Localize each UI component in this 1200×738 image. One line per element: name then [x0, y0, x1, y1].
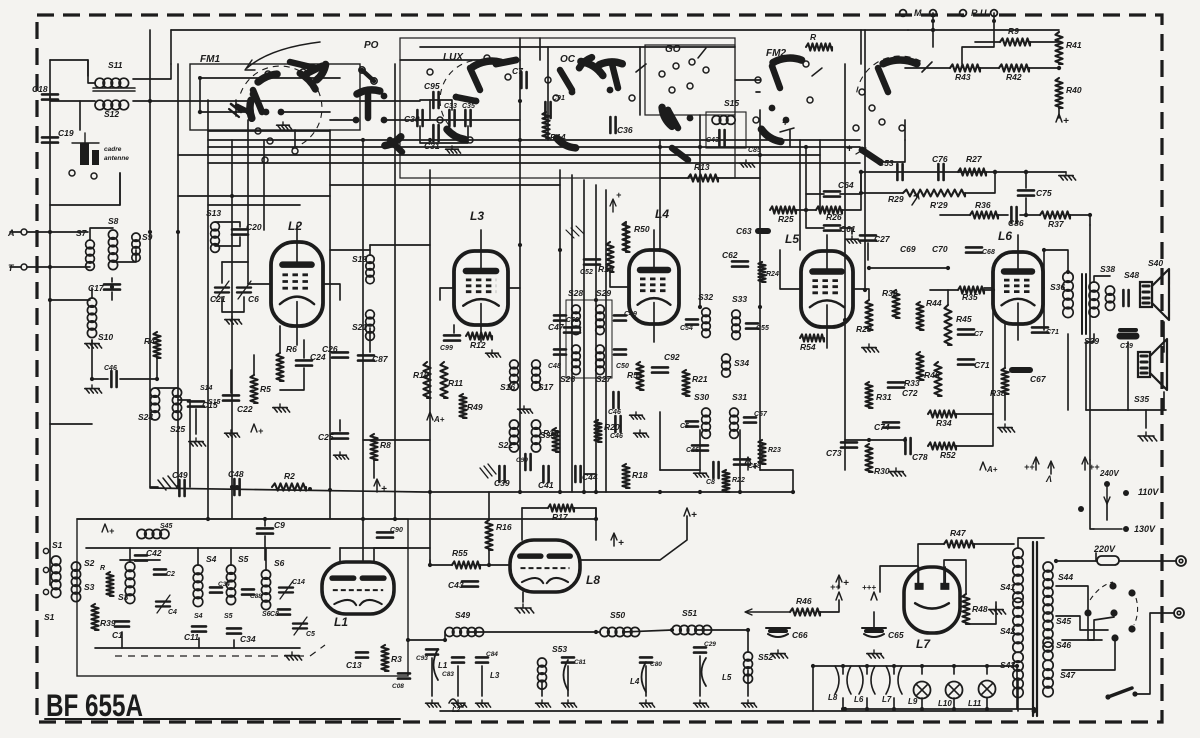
svg-text:R23: R23 — [768, 447, 781, 454]
wire trafo bot — [1017, 678, 1019, 711]
LUX black bar — [456, 97, 476, 101]
wire S12 left — [80, 101, 95, 130]
capacitor C77 — [958, 329, 974, 334]
wire chain wire1 — [408, 632, 445, 640]
ground gnd R38 — [998, 424, 1015, 432]
tap 110V — [1123, 490, 1129, 496]
resistor R8 — [370, 434, 377, 460]
tank bracket L1 — [434, 649, 439, 680]
wire switch wire — [1135, 613, 1174, 694]
contact dots FM2 — [769, 105, 790, 124]
wire rail x800 — [799, 140, 801, 250]
wire top bus drop R — [860, 30, 862, 64]
capacitor C61 — [824, 225, 840, 230]
wire mid h y140 — [208, 139, 860, 141]
resistor R30 — [865, 444, 872, 472]
svg-text:S3: S3 — [118, 592, 129, 602]
wire A lead — [10, 231, 21, 233]
resistor R14 — [542, 112, 549, 138]
wire box inner bottom3 — [233, 640, 235, 648]
capacitor C66a — [692, 445, 708, 450]
svg-text:C8: C8 — [706, 479, 715, 486]
switch rotor FM1 f — [300, 73, 315, 89]
title underline — [45, 718, 400, 720]
switch rotor OC e — [557, 138, 576, 148]
switch contacts OC — [545, 69, 635, 143]
wire C61 links — [806, 210, 824, 228]
tank bracket L4 — [642, 662, 647, 692]
plus band — [102, 524, 108, 532]
wire v misc3 — [1090, 460, 1094, 529]
wire sel wire1 — [1056, 586, 1088, 609]
resistor R13 — [688, 174, 718, 181]
svg-text:Λ: Λ — [1045, 474, 1052, 484]
OC tick — [636, 64, 646, 72]
svg-text:C67: C67 — [1030, 374, 1047, 384]
svg-text:S40: S40 — [1148, 258, 1163, 268]
resistor R32 — [892, 290, 899, 318]
svg-text:C50: C50 — [616, 363, 629, 370]
FM1 box — [190, 64, 360, 130]
wire v x700 low — [699, 430, 701, 470]
switch arc FM1 — [241, 66, 322, 149]
wire box inner bottom2 — [198, 638, 200, 648]
wire C64 links — [806, 194, 824, 210]
ground gnd L8 — [515, 604, 534, 613]
wire L5 top lead — [826, 235, 828, 251]
node M stub — [931, 19, 935, 23]
resistor R52 — [928, 442, 956, 449]
wire L8 gnd wire — [522, 592, 524, 602]
capacitor C88 — [242, 589, 254, 594]
wire v misc2 — [1043, 250, 1045, 330]
svg-text:cadre: cadre — [104, 146, 122, 153]
svg-text:R46: R46 — [796, 596, 812, 606]
svg-text:C80: C80 — [650, 661, 662, 668]
coil S47 — [1043, 660, 1053, 697]
wire h y560 l8 — [429, 560, 431, 565]
svg-text:C36: C36 — [617, 125, 633, 135]
svg-text:R35: R35 — [962, 292, 978, 302]
switch rotor FM2 a — [773, 58, 802, 63]
trimmer C21 — [215, 281, 229, 299]
terminal T — [21, 264, 27, 270]
A+ arrow d — [1084, 458, 1086, 470]
switch rotor GO b — [668, 110, 678, 128]
svg-text:S30: S30 — [694, 392, 709, 402]
svg-text:R: R — [100, 565, 105, 572]
svg-text:C2: C2 — [166, 571, 175, 578]
antenna sw contact2 — [91, 173, 97, 179]
wire left rail top — [50, 60, 88, 76]
svg-text:S35: S35 — [1134, 394, 1149, 404]
coil S16 — [510, 360, 519, 390]
node junction 51 — [1032, 707, 1036, 711]
capacitor C93 — [426, 649, 438, 654]
coil S15 — [712, 116, 735, 125]
node n R25 — [804, 208, 808, 212]
resistor R46 — [790, 608, 820, 615]
resistor R16 — [485, 520, 492, 550]
wire sel wire2 — [1056, 616, 1108, 630]
resistor R40 — [1055, 78, 1062, 108]
node junction 17 — [230, 485, 234, 489]
svg-text:C8: C8 — [270, 611, 279, 618]
switch rotor FM1 b — [250, 100, 252, 118]
svg-text:S43: S43 — [1000, 660, 1015, 670]
wire chain wire4 — [695, 630, 748, 652]
wire FM2 drop — [789, 130, 791, 147]
tube L3 — [454, 251, 508, 325]
wire top bus drop L — [170, 30, 172, 64]
capacitor C76 — [938, 164, 943, 180]
wire S19 wires — [369, 245, 371, 255]
wire v x845 mid — [844, 440, 846, 470]
wire chain drop1 — [431, 658, 433, 696]
wire extra l2 grid — [247, 262, 249, 284]
svg-text:C17: C17 — [88, 283, 105, 293]
node junction 6 — [758, 153, 762, 157]
resistor R51 — [636, 362, 643, 390]
svg-text:C53: C53 — [878, 158, 894, 168]
svg-text:+++: +++ — [862, 583, 876, 592]
wire strip h y120 — [420, 119, 520, 121]
svg-text:L8: L8 — [828, 693, 838, 702]
wire rail x178 — [177, 64, 179, 487]
wire L6 bottom lead — [1017, 324, 1019, 340]
svg-text:+: + — [846, 143, 853, 155]
node lamp node 954 — [952, 664, 956, 668]
wire L4 bottom lead — [653, 324, 655, 342]
capacitor C74 — [883, 422, 899, 427]
wire h misc1 — [845, 439, 905, 441]
svg-text:C66: C66 — [792, 630, 808, 640]
wire R55 wires — [430, 564, 452, 566]
svg-text:R39: R39 — [100, 618, 116, 628]
wire S11 left — [88, 60, 95, 83]
node junction 8 — [230, 194, 234, 198]
switch rotor FM1 c — [253, 90, 262, 112]
node lamp node2 894 — [892, 707, 896, 711]
node junction 23 — [594, 490, 598, 494]
node junction 22 — [582, 490, 586, 494]
wire R36 lead — [940, 214, 970, 216]
A+ mark2 — [427, 412, 433, 420]
capacitor C58 — [713, 462, 718, 478]
wire S13 bot — [215, 237, 240, 246]
wire chain drop5 — [567, 666, 569, 696]
wire S12 to C18 — [50, 97, 80, 101]
switch rotor OC d — [612, 64, 618, 88]
svg-text:L1: L1 — [438, 661, 448, 670]
switch rotor LUX b — [470, 68, 480, 90]
wire h y470 — [660, 469, 700, 471]
wire T wire — [27, 266, 50, 268]
svg-text:R4: R4 — [144, 336, 155, 346]
coil S37 secondary — [1089, 282, 1099, 317]
svg-text:GO: GO — [665, 44, 681, 55]
svg-text:R34: R34 — [936, 418, 952, 428]
tap 130V — [1094, 528, 1122, 530]
svg-text:C63: C63 — [736, 226, 752, 236]
node n take — [931, 28, 935, 32]
ground gnd chain 458 — [452, 700, 467, 707]
wire rail x760 — [759, 110, 761, 470]
wire left rail — [49, 60, 51, 585]
wire lamp drop 922b — [921, 698, 923, 709]
resistor R43 — [950, 64, 980, 71]
trimmer C5 — [293, 617, 307, 635]
svg-text:L6: L6 — [998, 229, 1012, 243]
wire main bus y490 — [150, 488, 793, 492]
ground gnd C74 — [889, 468, 906, 476]
contact dots OC — [569, 87, 614, 96]
wire chain drop7 — [699, 656, 701, 696]
wire R42 out — [1029, 67, 1059, 69]
wire lamp drop 843a — [842, 666, 844, 674]
svg-text:R15: R15 — [543, 428, 559, 438]
svg-text:R52: R52 — [940, 450, 956, 460]
capacitor C39 — [499, 466, 504, 482]
capacitor C35 — [465, 110, 470, 126]
resistor R12 — [466, 332, 492, 339]
coil S17 — [532, 360, 541, 390]
coil S3 — [125, 562, 135, 604]
contact dots LUX — [453, 94, 480, 105]
wire C15 drop — [195, 409, 197, 434]
wire trim drop — [222, 297, 244, 312]
wire L7 plate2 — [944, 560, 966, 594]
ground gnd chain 432 — [426, 700, 441, 707]
capacitor C33x — [449, 110, 454, 126]
wire mid v x248 — [247, 140, 249, 262]
svg-text:C34: C34 — [240, 634, 256, 644]
svg-text:M: M — [914, 8, 922, 18]
wire pot left — [861, 172, 903, 193]
wire R16 wires — [488, 492, 490, 520]
svg-text:C39: C39 — [494, 478, 510, 488]
svg-text:C7: C7 — [512, 66, 524, 76]
wire box inner v3 — [265, 548, 267, 570]
coil S50 — [600, 627, 640, 636]
capacitor C62 — [732, 261, 748, 266]
node junction 54 — [148, 99, 152, 103]
capacitor C95 — [433, 92, 438, 108]
svg-text:L11: L11 — [968, 699, 982, 708]
resistor R20 — [594, 420, 601, 442]
wire L2 top lead — [296, 225, 298, 242]
wire R43 lead — [905, 67, 950, 69]
wire FM1 wire a — [200, 111, 249, 113]
coil S53 — [538, 658, 547, 689]
svg-text:C68: C68 — [982, 249, 995, 256]
wire C27 drop — [867, 243, 869, 260]
capacitor C96a — [1123, 290, 1128, 306]
wire tube row h y250 — [330, 249, 370, 251]
mains terminal 1 — [1176, 556, 1186, 566]
resistor R10 — [423, 362, 430, 398]
svg-text:S19: S19 — [352, 254, 367, 264]
node junction 47 — [993, 170, 997, 174]
wire sel extra — [1106, 504, 1108, 520]
node junction 26 — [738, 490, 742, 494]
svg-text:R11: R11 — [448, 378, 463, 388]
capacitor C41 — [543, 466, 548, 482]
wire R38 gnd — [1004, 394, 1006, 420]
node junction 56 — [48, 230, 52, 234]
capacitor C63 blob — [755, 228, 771, 234]
wire SW7 wire — [880, 140, 905, 162]
coil S11 — [95, 78, 129, 88]
svg-text:+: + — [782, 118, 788, 129]
wire R16 w2 — [488, 550, 490, 565]
wire R37 out — [1070, 215, 1090, 225]
wire L3 bias — [453, 325, 455, 333]
wire lamp bus bottom — [845, 708, 1034, 710]
coil S29 — [596, 305, 605, 335]
tank bracket L3 — [564, 660, 569, 690]
wire L5 grid — [780, 250, 801, 289]
capacitor C59 — [734, 459, 750, 464]
svg-text:C76: C76 — [932, 154, 948, 164]
capacitor C46b — [615, 416, 620, 432]
terminal RU b — [991, 10, 998, 17]
wire M drop — [932, 13, 934, 30]
resistor R3 — [381, 645, 388, 671]
svg-text:R.U.: R.U. — [971, 8, 989, 18]
wire bundle v3 — [583, 180, 585, 492]
resistor R11 — [440, 362, 447, 398]
capacitor C49a — [614, 315, 626, 320]
speaker S35 — [1138, 339, 1167, 390]
node n C86 — [1024, 213, 1028, 217]
wire rail x660 — [659, 140, 661, 250]
capacitor C92 — [652, 367, 668, 372]
svg-text:C42: C42 — [146, 548, 162, 558]
choke L8b — [835, 666, 851, 694]
svg-text:R42: R42 — [1006, 72, 1022, 82]
wire strip h y60 — [400, 59, 520, 61]
ground gnd S30 — [694, 470, 709, 477]
svg-text:S5: S5 — [238, 554, 249, 564]
resistor R50 — [622, 222, 629, 252]
capacitor C56 — [686, 421, 698, 426]
node junction 14 — [698, 305, 702, 309]
wire sel drop — [1062, 641, 1115, 670]
node lamp node 867 — [865, 664, 869, 668]
coil S23 — [531, 420, 540, 452]
wire R45 link — [947, 290, 949, 305]
wire box inner v4 — [129, 548, 131, 562]
frame antenna symbol — [80, 143, 89, 165]
ground gnd chain 542 — [536, 700, 551, 707]
node junction 25 — [698, 490, 702, 494]
switch rotor GO c — [672, 148, 688, 160]
wire R17 loop — [522, 507, 548, 509]
wire C9 drop — [264, 536, 266, 560]
ground gnd S16 — [518, 406, 533, 413]
svg-text:R54: R54 — [800, 342, 816, 352]
svg-text:C27: C27 — [874, 234, 891, 244]
wire v misc4 — [1067, 334, 1069, 410]
svg-text:C64: C64 — [838, 180, 854, 190]
switch rotor PO d — [390, 140, 402, 152]
wire h y519 ext — [560, 508, 596, 519]
coil S1 ant — [51, 556, 61, 598]
svg-text:+: + — [618, 538, 624, 549]
ground gnd chain 748 — [742, 700, 757, 707]
wire L6 top lead — [1017, 235, 1019, 252]
ground gnd R12 — [486, 350, 501, 357]
svg-text:S51: S51 — [682, 608, 697, 618]
resistor R34 — [928, 410, 956, 417]
wire lamp bus right — [1016, 666, 1018, 709]
wire L1 leads2 — [373, 548, 375, 562]
svg-text:S15: S15 — [208, 399, 221, 406]
wire spk bus drop — [1163, 392, 1165, 410]
wire chain l1 — [150, 486, 158, 488]
plus arrow R8 — [376, 480, 378, 492]
A+ arrow f — [613, 534, 615, 546]
wire L6 plate — [1043, 287, 1044, 289]
svg-text:C65: C65 — [888, 630, 904, 640]
wire L5 bottom lead — [826, 327, 828, 348]
svg-text:C55: C55 — [756, 325, 769, 332]
wire L3 plate — [508, 287, 520, 289]
svg-text:C72: C72 — [902, 388, 918, 398]
wire S7 wires — [90, 228, 113, 240]
svg-text:R26: R26 — [826, 212, 842, 222]
switch contacts FM1 — [255, 69, 306, 163]
lamp L11 — [979, 681, 996, 698]
svg-text:C84: C84 — [486, 651, 498, 658]
svg-text:S48: S48 — [1124, 270, 1139, 280]
wire gnd line y172 — [861, 171, 1066, 173]
svg-text:FM1: FM1 — [200, 54, 220, 65]
switch rotor PO b — [365, 92, 372, 118]
plus arr mid — [836, 592, 842, 600]
capacitor C99 — [444, 335, 460, 340]
switch rotor LUX c — [447, 129, 465, 139]
resistor R26 — [816, 206, 842, 213]
wire R34 out — [956, 413, 993, 415]
capacitor C90 — [525, 454, 530, 470]
wire C46 wires — [92, 378, 108, 380]
wire strip h y147 — [208, 146, 860, 148]
capacitor C86 — [1011, 207, 1016, 223]
capacitor C55 — [746, 323, 758, 328]
svg-text:S38: S38 — [1100, 264, 1115, 274]
capacitor C19 — [42, 137, 58, 142]
node junction 4 — [658, 145, 662, 149]
svg-text:R29: R29 — [888, 194, 904, 204]
input jack 1 — [43, 548, 48, 553]
node lamp node2 867 — [865, 707, 869, 711]
node lamp node2 922 — [920, 707, 924, 711]
wire bundle v5 — [605, 190, 607, 492]
switch rotor GO a — [662, 107, 672, 126]
SW7 tick — [922, 62, 932, 72]
node junction c48 — [235, 485, 239, 489]
contact dots selector — [1084, 582, 1135, 641]
svg-text:++: ++ — [1024, 462, 1035, 472]
svg-text:S44: S44 — [1058, 572, 1073, 582]
transformer core S11/S12 — [93, 87, 135, 89]
capacitor C8 — [278, 609, 290, 614]
wire R4243 link — [980, 67, 999, 69]
wire L8 out — [580, 516, 687, 560]
capacitor C53 — [897, 164, 902, 180]
